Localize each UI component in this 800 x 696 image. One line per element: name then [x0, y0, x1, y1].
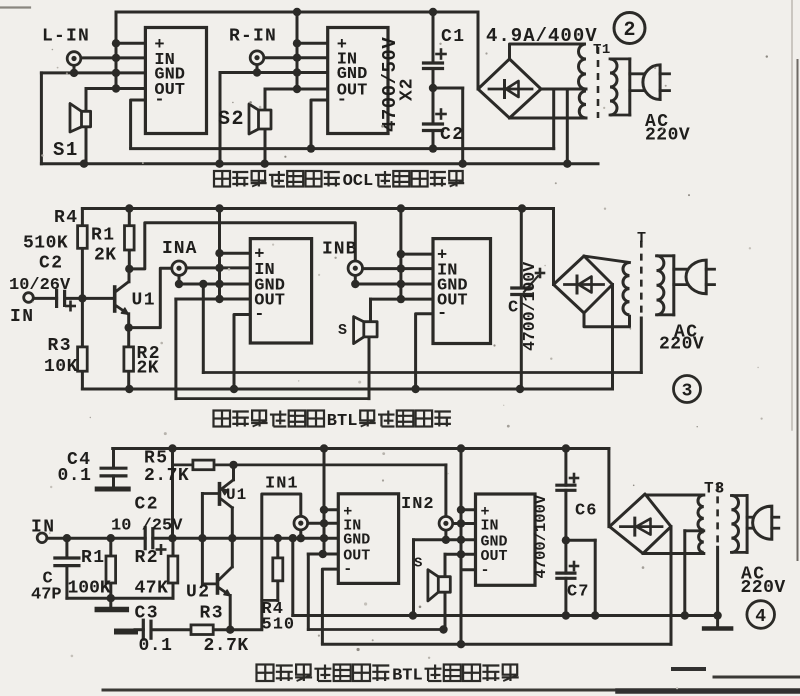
svg-text:C2: C2 — [440, 125, 465, 145]
svg-text:3: 3 — [682, 382, 693, 402]
svg-text:4: 4 — [755, 607, 766, 627]
svg-text:-: - — [343, 561, 352, 578]
svg-text:IN1: IN1 — [265, 475, 299, 494]
svg-text:S: S — [414, 556, 422, 572]
svg-text:R4: R4 — [54, 208, 79, 228]
svg-text:R3: R3 — [200, 604, 225, 624]
svg-text:INB: INB — [322, 240, 357, 260]
svg-text:U1: U1 — [132, 291, 157, 311]
svg-text:C1: C1 — [441, 27, 466, 47]
svg-text:C7: C7 — [567, 583, 589, 602]
svg-text:C2: C2 — [135, 495, 160, 515]
svg-text:T3: T3 — [704, 480, 725, 498]
svg-text:510: 510 — [262, 616, 296, 635]
svg-text:S1: S1 — [53, 139, 79, 161]
svg-text:2.7K: 2.7K — [204, 636, 249, 656]
svg-text:220V: 220V — [659, 335, 704, 355]
svg-text:-: - — [437, 305, 447, 324]
svg-text:10 /25V: 10 /25V — [111, 517, 183, 536]
svg-text:4700/100V: 4700/100V — [532, 494, 550, 578]
svg-text:0.1: 0.1 — [58, 466, 92, 486]
svg-text:X2: X2 — [398, 77, 418, 101]
svg-text:47K: 47K — [135, 579, 169, 599]
svg-text:-: - — [481, 562, 490, 579]
svg-text:R3: R3 — [48, 336, 73, 356]
svg-text:2K: 2K — [137, 359, 160, 379]
svg-text:10/26V: 10/26V — [9, 276, 71, 295]
svg-text:BTL: BTL — [327, 412, 358, 431]
svg-text:INA: INA — [162, 239, 197, 259]
svg-text:0.1: 0.1 — [139, 636, 173, 656]
svg-text:S2: S2 — [218, 108, 245, 131]
svg-text:U2: U2 — [186, 583, 211, 603]
svg-text:C: C — [508, 299, 518, 318]
svg-text:C3: C3 — [135, 604, 160, 624]
svg-text:T: T — [637, 230, 646, 247]
svg-text:220V: 220V — [645, 126, 690, 146]
svg-text:BTL: BTL — [392, 667, 423, 686]
svg-text:S: S — [338, 322, 347, 339]
svg-text:2.7K: 2.7K — [144, 466, 189, 486]
svg-text:2K: 2K — [94, 246, 117, 266]
svg-text:IN: IN — [481, 518, 499, 535]
svg-text:4700/100V: 4700/100V — [520, 262, 539, 351]
svg-text:100K: 100K — [68, 579, 111, 599]
svg-text:GND: GND — [343, 532, 370, 549]
svg-text:IN: IN — [31, 518, 56, 538]
svg-text:OCL: OCL — [343, 172, 374, 191]
svg-text:47P: 47P — [31, 586, 62, 605]
svg-text:IN: IN — [10, 307, 35, 327]
svg-text:R2: R2 — [135, 548, 160, 568]
svg-text:T1: T1 — [593, 42, 611, 58]
svg-text:R1: R1 — [91, 226, 116, 246]
svg-text:C2: C2 — [39, 254, 64, 274]
svg-text:2: 2 — [623, 19, 635, 42]
svg-text:-: - — [154, 91, 164, 110]
svg-text:10K: 10K — [44, 357, 78, 377]
svg-text:4.9A/400V: 4.9A/400V — [486, 25, 598, 47]
svg-text:-: - — [337, 91, 347, 110]
svg-text:-: - — [254, 306, 264, 325]
svg-text:U1: U1 — [226, 486, 247, 504]
svg-text:220V: 220V — [741, 578, 786, 598]
svg-text:L-IN: L-IN — [42, 27, 90, 47]
svg-text:IN2: IN2 — [401, 495, 435, 514]
svg-text:510K: 510K — [23, 234, 68, 254]
svg-text:C6: C6 — [575, 502, 597, 521]
svg-text:R-IN: R-IN — [229, 27, 277, 47]
svg-text:R1: R1 — [81, 548, 106, 568]
